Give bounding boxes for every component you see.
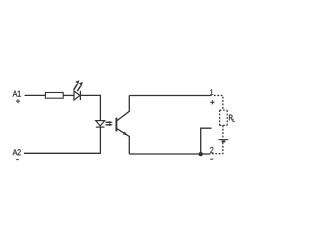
load resistor RL box (dashed) xyxy=(220,110,228,125)
dashed wire battery to terminal 2 xyxy=(211,142,223,153)
phototransistor Q1 emitter xyxy=(117,129,129,154)
A2 minus sign xyxy=(16,159,19,161)
RL label xyxy=(229,115,235,122)
terminal 2 label xyxy=(210,147,213,153)
battery long plate xyxy=(219,139,229,141)
phototransistor Q1 collector xyxy=(117,96,129,121)
LED D1 anode triangle xyxy=(74,91,80,100)
plus sign at terminal 1 xyxy=(210,100,214,104)
terminal A2 label xyxy=(13,149,21,155)
wire corner down to opto LED xyxy=(99,95,101,121)
wire collector to terminal 1 xyxy=(129,95,211,97)
phototransistor Q1 emitter arrow xyxy=(123,132,128,136)
terminal A1 label xyxy=(13,91,21,97)
phototransistor Q1 base bar xyxy=(115,118,117,132)
dashed wire RL to battery xyxy=(222,125,224,139)
minus sign at terminal 2 xyxy=(210,158,213,160)
battery short plate xyxy=(222,140,226,142)
optocoupler U1 LED triangle xyxy=(96,121,105,126)
LED D1 cathode bar xyxy=(79,91,81,100)
wire opto LED down to bottom xyxy=(99,127,101,153)
optocoupler U1 LED cathode bar xyxy=(96,126,105,128)
LED emission arrow 1 xyxy=(74,80,80,90)
A1 plus sign xyxy=(16,99,20,103)
resistor R (input series) xyxy=(45,93,63,99)
LED emission arrow 2 xyxy=(77,82,83,91)
opto coupling arrow 2 xyxy=(106,123,114,126)
junction dot on terminal 2 wire xyxy=(199,152,203,156)
wire emitter to terminal 2 xyxy=(129,153,210,155)
wire A1 to resistor xyxy=(25,94,46,96)
terminal 1 label xyxy=(210,90,213,95)
wire LED to corner xyxy=(80,94,100,96)
signal tap wire from junction up and right xyxy=(201,128,212,154)
wire resistor to LED xyxy=(63,94,74,96)
wire bottom-left A2 xyxy=(24,152,101,154)
dashed external wire from terminal 1 xyxy=(214,96,223,111)
opto coupling arrow 1 xyxy=(106,121,114,124)
